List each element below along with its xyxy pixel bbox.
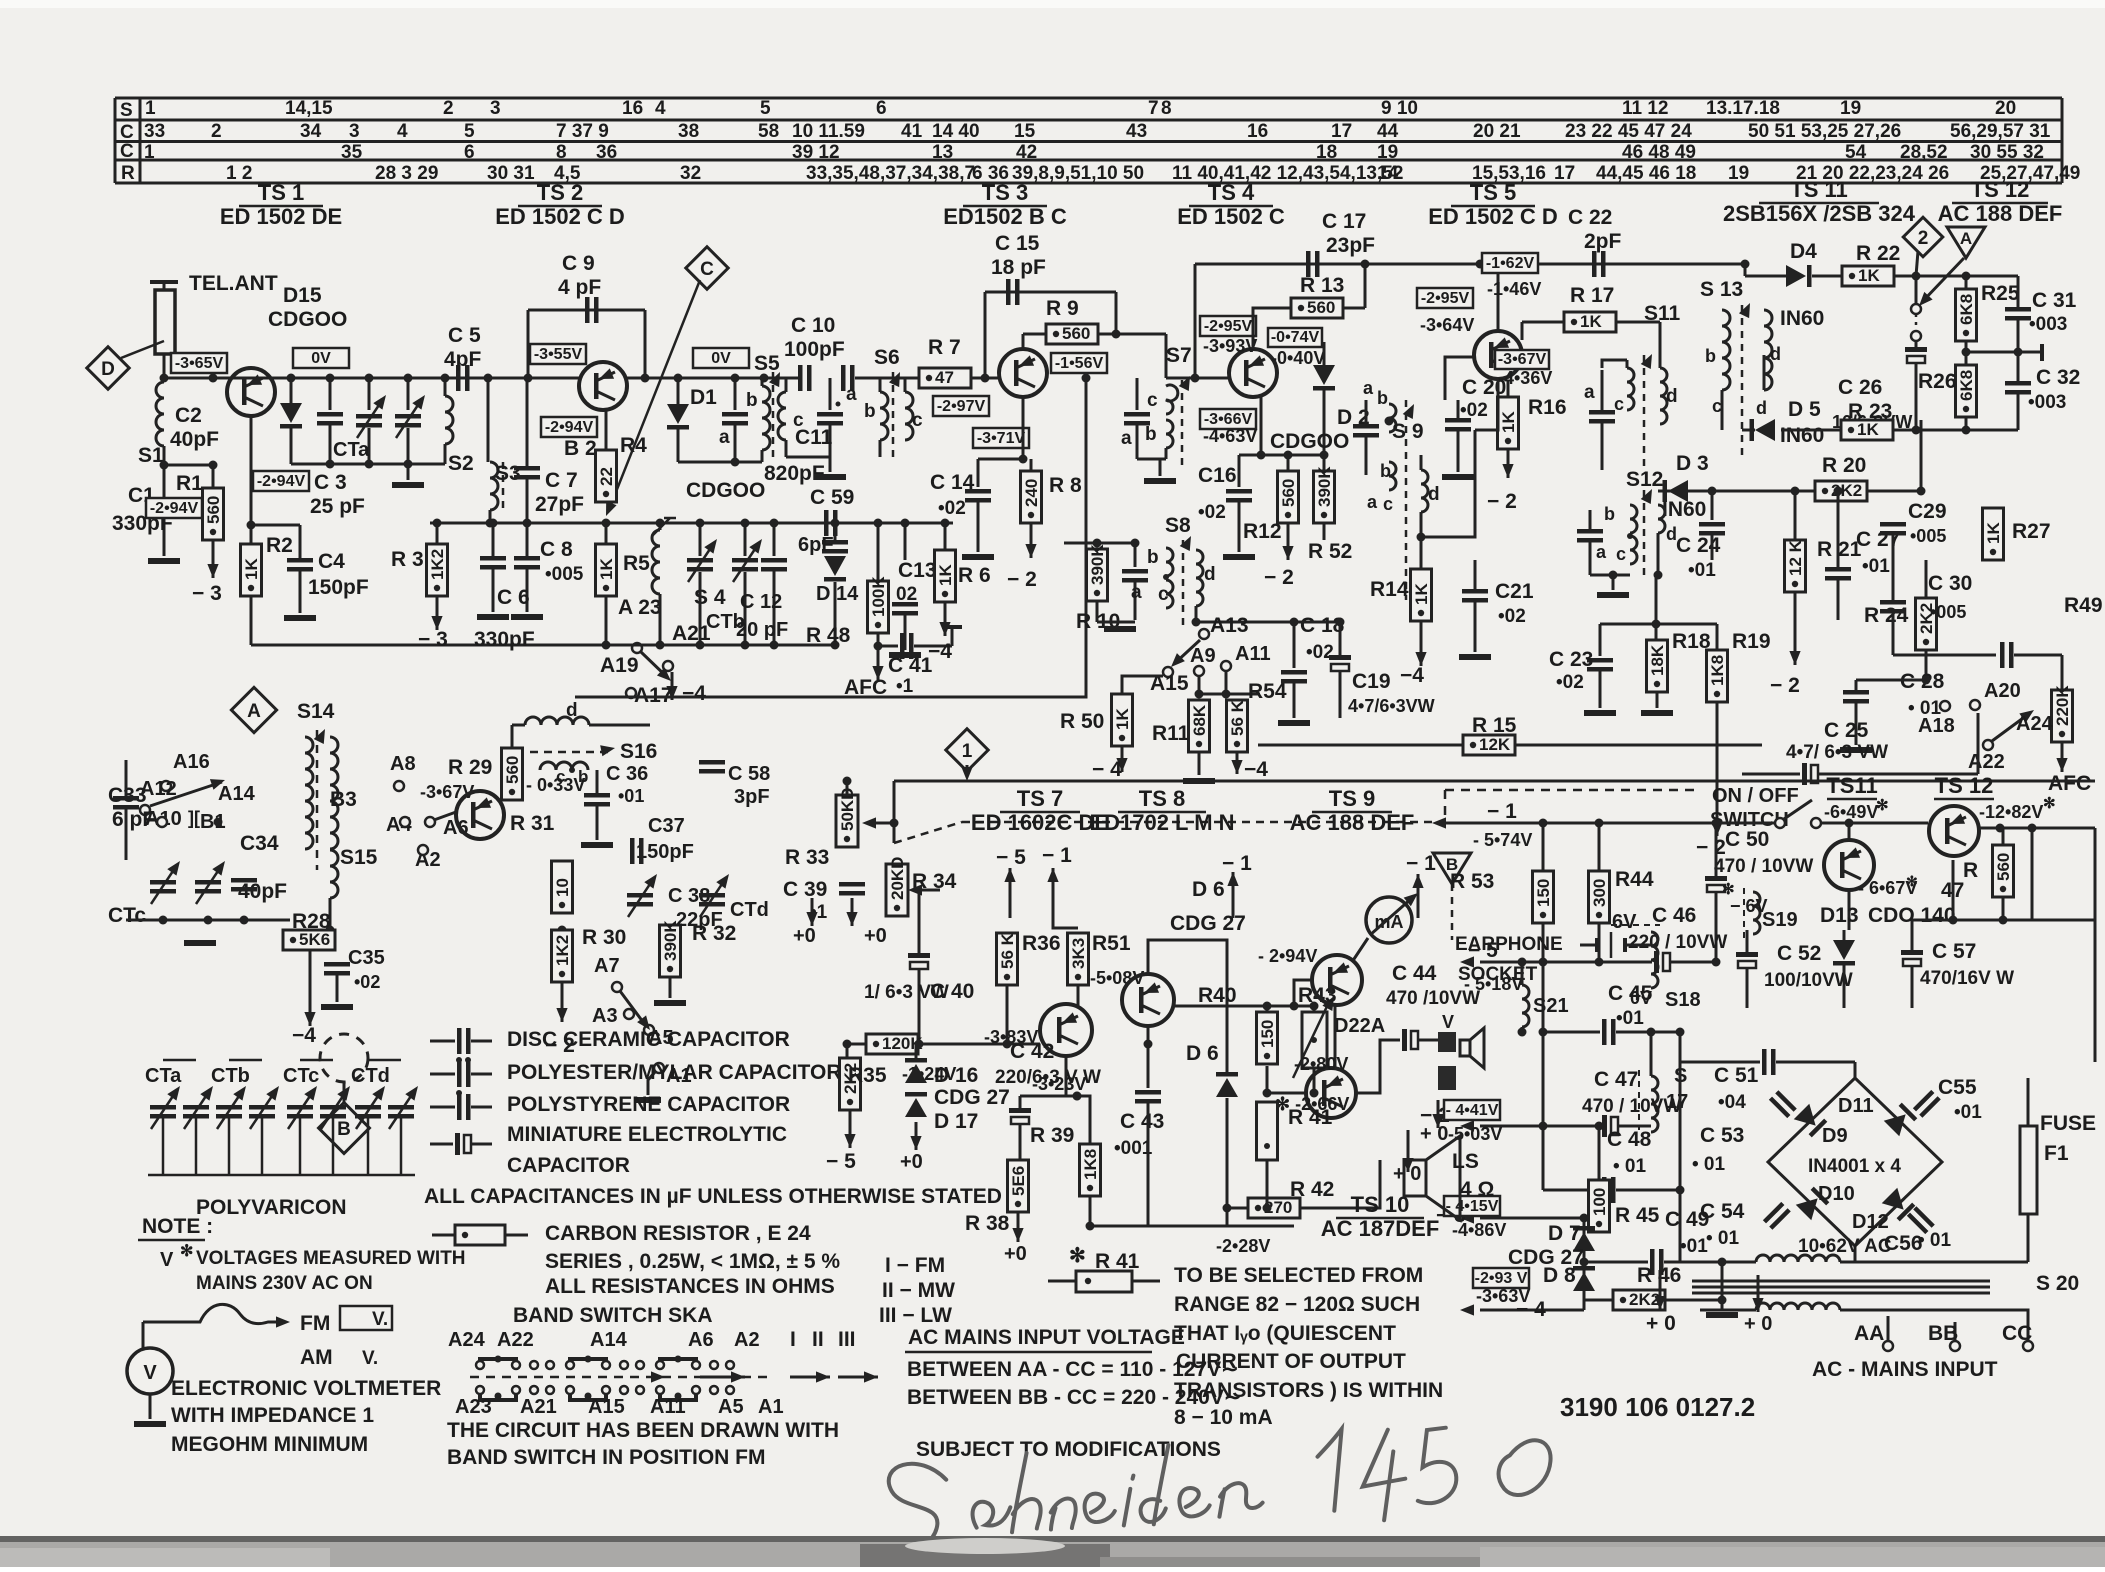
svg-text:10 11.59: 10 11.59 bbox=[792, 121, 865, 142]
svg-text:• 01: • 01 bbox=[1613, 1156, 1646, 1177]
resistor R2 1K bbox=[241, 544, 262, 596]
svg-text:− 5: − 5 bbox=[826, 1150, 856, 1173]
svg-text:D: D bbox=[101, 359, 115, 380]
svg-text:][: ][ bbox=[188, 808, 200, 828]
svg-text:1K8: 1K8 bbox=[1708, 655, 1727, 686]
svg-text:a: a bbox=[719, 427, 730, 448]
svg-text:− 3: − 3 bbox=[418, 628, 448, 651]
svg-text:C 12: C 12 bbox=[740, 591, 782, 613]
varicap CTd2 bbox=[699, 893, 725, 898]
svg-text:− 1: − 1 bbox=[1222, 852, 1252, 875]
svg-text:B 2: B 2 bbox=[564, 437, 597, 460]
svg-text:15: 15 bbox=[1014, 121, 1036, 142]
antenna triangle A bbox=[1947, 227, 1985, 258]
svg-text:C 3: C 3 bbox=[314, 471, 347, 494]
wire TS8 collector bbox=[1147, 940, 1149, 974]
wire TS7 collector to R51 bbox=[1077, 985, 1080, 1008]
main rail TS1 bbox=[164, 377, 472, 380]
bridge diode D12 bbox=[1882, 1188, 1916, 1222]
diode D2 bbox=[1323, 342, 1326, 365]
svg-text:A15: A15 bbox=[588, 1396, 625, 1418]
S7 tank coil c bbox=[1166, 385, 1178, 414]
svg-text:S16: S16 bbox=[620, 740, 657, 763]
resistor R46 2K2 bbox=[1613, 1290, 1665, 1310]
svg-text:S3: S3 bbox=[495, 462, 521, 485]
svg-text:D 7: D 7 bbox=[1548, 1222, 1581, 1245]
bus A9-A11 bbox=[1199, 693, 1260, 696]
meter arm bbox=[1370, 898, 1412, 935]
varicap CTb small bbox=[699, 523, 702, 556]
arrow from diamond 1 to bus bbox=[966, 765, 969, 770]
ground C21 bbox=[1459, 654, 1491, 660]
svg-text:- 4•41V: - 4•41V bbox=[1446, 1102, 1499, 1119]
svg-text:− 1: − 1 bbox=[1042, 844, 1072, 867]
svg-text:33: 33 bbox=[144, 121, 165, 142]
mid junction R25 R26 bbox=[1962, 348, 1971, 357]
series cap C51 bbox=[1680, 1061, 1760, 1064]
FM V box bbox=[340, 1306, 392, 1330]
arrow into 50KD bbox=[870, 822, 894, 825]
voltage box -2.94V TS2 bbox=[541, 417, 597, 437]
wire switch to TS11 bbox=[1820, 822, 1928, 825]
svg-text:ED 1502 C: ED 1502 C bbox=[1177, 204, 1285, 229]
svg-text:a: a bbox=[1363, 378, 1374, 398]
svg-text:− 6V: − 6V bbox=[1730, 896, 1768, 916]
svg-text:d: d bbox=[1428, 484, 1440, 505]
svg-text:5K6: 5K6 bbox=[299, 930, 330, 949]
svg-text:R 17: R 17 bbox=[1570, 284, 1614, 307]
voltage box 0V TS1 bbox=[293, 348, 349, 368]
svg-text:D 17: D 17 bbox=[934, 1110, 978, 1133]
svg-text:2: 2 bbox=[1918, 228, 1929, 249]
series cap C45 bbox=[1543, 1031, 1600, 1034]
svg-text:4 Ω: 4 Ω bbox=[1460, 1178, 1494, 1201]
contact A22 arm A24 bbox=[1983, 740, 1993, 750]
svg-text:POLYSTYRENE CAPACITOR: POLYSTYRENE CAPACITOR bbox=[507, 1093, 790, 1116]
arrow +0 bottom center bbox=[1659, 1270, 1662, 1310]
svg-text:•02: •02 bbox=[938, 498, 966, 519]
svg-text:C 52: C 52 bbox=[1777, 942, 1821, 965]
ground C4 bbox=[284, 615, 316, 621]
S12 junction mid bbox=[1627, 533, 1633, 539]
svg-text:CTc: CTc bbox=[283, 1065, 319, 1087]
svg-text:b: b bbox=[1705, 346, 1716, 366]
svg-text:28,52: 28,52 bbox=[1900, 142, 1948, 163]
resistor R24 2K2 bbox=[1916, 598, 1937, 650]
series ecap C44 bbox=[1356, 1040, 1400, 1093]
svg-text:-2•97V: -2•97V bbox=[937, 398, 986, 415]
svg-text:-0•74V: -0•74V bbox=[1271, 329, 1320, 346]
svg-text:D 8: D 8 bbox=[1543, 1264, 1576, 1287]
svg-text:− 3: − 3 bbox=[192, 582, 222, 605]
svg-text:4•7/ 6•3 VW: 4•7/ 6•3 VW bbox=[1786, 742, 1888, 763]
wire R22 to node2 bbox=[1894, 275, 1916, 278]
svg-text:16: 16 bbox=[622, 98, 643, 119]
svg-text:S8: S8 bbox=[1165, 514, 1191, 537]
svg-text:C 36: C 36 bbox=[606, 763, 648, 785]
svg-text:BAND SWITCH IN POSITIO: BAND SWITCH IN POSITION FM bbox=[447, 1446, 766, 1469]
ground R52 bbox=[1323, 523, 1326, 540]
varicap CTa bbox=[368, 378, 371, 410]
tank bus TS1 bbox=[291, 463, 445, 466]
voltage box -0.74V bbox=[1268, 328, 1322, 347]
supply arrow -2 under R30 bbox=[561, 982, 564, 1022]
capacitor C10 series 2 bbox=[841, 365, 846, 391]
svg-text:A21: A21 bbox=[520, 1396, 557, 1418]
svg-text:A: A bbox=[247, 701, 261, 722]
wire S21 bottom bbox=[1521, 1027, 1524, 1032]
coil S18 bbox=[1651, 932, 1658, 988]
wire TS9 emitter to TS10 bbox=[1334, 1005, 1337, 1068]
svg-text:C 23: C 23 bbox=[1549, 648, 1593, 671]
capacitor C30 .005 bbox=[1880, 600, 1906, 605]
svg-text:b: b bbox=[864, 401, 876, 422]
svg-text:I − FM: I − FM bbox=[885, 1254, 945, 1277]
series ecap C25 in bus bbox=[1742, 773, 1800, 776]
emitter TS1 wire bbox=[250, 414, 253, 544]
arm from A to contact bbox=[1922, 258, 1964, 302]
diode D15 bbox=[290, 378, 293, 403]
svg-text:C37: C37 bbox=[648, 815, 685, 837]
polyvaricon frame lines bbox=[162, 1118, 165, 1175]
svg-text:3pF: 3pF bbox=[734, 786, 770, 808]
svg-text:3190 106 0127.2: 3190 106 0127.2 bbox=[1560, 1392, 1755, 1422]
diode D14 varactor bbox=[824, 556, 846, 576]
svg-text:42: 42 bbox=[1016, 142, 1037, 163]
svg-text:10•62V AC: 10•62V AC bbox=[1798, 1236, 1892, 1257]
arrow +0 under R39 bbox=[1017, 1212, 1020, 1242]
arm A6 to TS6 base bbox=[434, 812, 456, 820]
S13 transformer right coil bbox=[1764, 310, 1772, 390]
ground C18 bbox=[1278, 720, 1310, 726]
supply arrow -4 under R50 bbox=[1121, 746, 1124, 772]
speaker small bbox=[1470, 1028, 1484, 1068]
svg-text:AC 188 DEF: AC 188 DEF bbox=[1290, 810, 1415, 835]
svg-text:4: 4 bbox=[655, 98, 666, 119]
svg-text:1K2: 1K2 bbox=[553, 935, 572, 966]
bottom bus TS1-TS2 bbox=[251, 644, 606, 647]
diode D4 bbox=[1786, 265, 1806, 287]
svg-text:D 3: D 3 bbox=[1676, 452, 1709, 475]
svg-text:S 20: S 20 bbox=[2036, 1272, 2079, 1295]
capacitor C43 bbox=[1147, 1026, 1150, 1088]
svg-text:POLYESTER/MYLAR CAPACITOR: POLYESTER/MYLAR CAPACITOR bbox=[507, 1061, 841, 1084]
svg-text:50 51 53,25 27,26: 50 51 53,25 27,26 bbox=[1748, 121, 1901, 142]
wire 1K8 bottom bbox=[1089, 1196, 1092, 1226]
diode D3 bbox=[1668, 480, 1688, 502]
meter mA bbox=[1366, 897, 1412, 943]
svg-text:•02: •02 bbox=[1556, 672, 1584, 693]
svg-text:TO BE SELECTED FROM: TO BE SELECTED FROM bbox=[1174, 1264, 1423, 1287]
svg-text:IN60: IN60 bbox=[1780, 424, 1824, 447]
ground C23 bbox=[1584, 710, 1616, 716]
svg-text:-12•82V: -12•82V bbox=[1979, 802, 2043, 822]
svg-text:3K3: 3K3 bbox=[1069, 938, 1088, 969]
svg-text:C 51: C 51 bbox=[1714, 1064, 1759, 1087]
mains terminals AA BB CC bbox=[1700, 1310, 1888, 1332]
wire TS12 collector bbox=[1979, 827, 2095, 830]
svg-text:560: 560 bbox=[1307, 298, 1335, 317]
band switch top row contacts bbox=[480, 1359, 516, 1369]
resistor R39 5E6 bbox=[1008, 1160, 1029, 1212]
svg-text:•005: •005 bbox=[545, 564, 584, 585]
S14 transformer primary bbox=[305, 737, 313, 849]
svg-text:CTb: CTb bbox=[211, 1065, 250, 1087]
S13 dashed core bbox=[1741, 305, 1744, 460]
legend carbon resistor symbol bbox=[432, 1234, 455, 1237]
S11 dashed switch bbox=[1643, 355, 1646, 470]
coil S3 dashed bbox=[487, 378, 490, 462]
dashed box outline right bbox=[1445, 789, 1700, 792]
svg-text:R2: R2 bbox=[266, 534, 293, 557]
transformer S20 core bbox=[1692, 1280, 1990, 1283]
resistor R26 6K8 bbox=[1956, 365, 1977, 417]
S8 tank coil c bbox=[1166, 580, 1173, 608]
supply arrow -4 under R6 bbox=[944, 602, 947, 636]
svg-text:150: 150 bbox=[1534, 879, 1553, 907]
svg-text:6pF: 6pF bbox=[798, 534, 834, 556]
svg-text:20 21: 20 21 bbox=[1473, 121, 1521, 142]
resistor R5 1K bbox=[605, 523, 608, 544]
middle tank cap polystyrene bbox=[829, 378, 832, 410]
svg-text:C 25: C 25 bbox=[1824, 719, 1869, 742]
svg-text:A2: A2 bbox=[734, 1329, 760, 1351]
svg-text:CURRENT OF OUTPUT: CURRENT OF OUTPUT bbox=[1176, 1350, 1406, 1373]
resistor R49 220K bbox=[2052, 690, 2073, 742]
capacitor C59 series in bus bbox=[824, 510, 829, 536]
svg-text:1K: 1K bbox=[597, 558, 616, 580]
svg-text:300: 300 bbox=[1590, 879, 1609, 907]
dashed battery link bbox=[1611, 924, 1660, 926]
svg-text:R51: R51 bbox=[1092, 932, 1131, 955]
svg-text:4: 4 bbox=[397, 121, 408, 142]
junction S1 bottom bbox=[163, 446, 166, 465]
resistor R8 240 bbox=[1021, 471, 1042, 523]
svg-text:d: d bbox=[1770, 344, 1781, 364]
svg-text:C 17: C 17 bbox=[1322, 210, 1366, 233]
voltage box -4.41V bbox=[1444, 1100, 1500, 1120]
svg-text:A1: A1 bbox=[758, 1396, 784, 1418]
svg-text:C 59: C 59 bbox=[810, 486, 854, 509]
wire coil d down bbox=[1657, 533, 1660, 575]
svg-text:D 6: D 6 bbox=[1186, 1042, 1219, 1065]
dashed circle B bbox=[320, 1034, 368, 1082]
svg-text:d: d bbox=[566, 700, 578, 721]
svg-text:A24: A24 bbox=[448, 1329, 486, 1351]
svg-text:R 8: R 8 bbox=[1049, 474, 1082, 497]
voltage box -2.93V bbox=[1473, 1268, 1529, 1288]
svg-text:18 pF: 18 pF bbox=[991, 256, 1046, 279]
svg-text:R26: R26 bbox=[1918, 370, 1957, 393]
svg-text:•003: •003 bbox=[2028, 392, 2066, 413]
capacitor C22 2pF bbox=[1592, 251, 1597, 277]
svg-text:C21: C21 bbox=[1495, 580, 1534, 603]
svg-text:•01: •01 bbox=[1688, 560, 1716, 581]
svg-text:27pF: 27pF bbox=[535, 493, 584, 516]
switch contact A21 bbox=[663, 661, 673, 671]
svg-text:330pF: 330pF bbox=[474, 628, 535, 651]
svg-text:✻: ✻ bbox=[180, 1243, 193, 1260]
svg-text:b: b bbox=[1147, 547, 1159, 568]
diode D5 bbox=[1742, 429, 1755, 432]
dashed link to TS7 stage bbox=[894, 822, 962, 843]
capacitor C4 150pF bbox=[251, 524, 300, 527]
svg-text:C 32: C 32 bbox=[2036, 366, 2080, 389]
wire R40 R43 bottom bbox=[1267, 1092, 1306, 1095]
svg-text:AC MAINS INPUT VOLTAGE: AC MAINS INPUT VOLTAGE bbox=[908, 1326, 1185, 1349]
voltage box 0V TS2 bbox=[693, 348, 749, 368]
svg-text:LS: LS bbox=[1452, 1150, 1479, 1173]
voltage box -3.71V bbox=[973, 428, 1029, 448]
svg-text:1K8: 1K8 bbox=[1081, 1149, 1100, 1180]
dashed S17 bbox=[1638, 1070, 1640, 1130]
svg-text:C 46: C 46 bbox=[1652, 904, 1696, 927]
junction D3 out bbox=[1708, 487, 1717, 496]
handwritten Schneider 1450 bbox=[861, 1415, 1554, 1558]
resistor R3 1K2 bbox=[427, 544, 448, 596]
bus above S8 tank bbox=[1064, 542, 1135, 545]
svg-text:ED 1502 C D: ED 1502 C D bbox=[1428, 204, 1558, 229]
middle tank coil c bbox=[778, 392, 786, 440]
svg-text:-6•49V: -6•49V bbox=[1824, 802, 1878, 822]
arrow -4 row bbox=[1460, 1304, 1474, 1315]
S12 coil left lower bbox=[1630, 536, 1637, 564]
svg-text:−4: −4 bbox=[1400, 664, 1424, 687]
svg-text:C35: C35 bbox=[348, 947, 385, 969]
svg-text:1K: 1K bbox=[1113, 708, 1132, 730]
svg-text:TS 12: TS 12 bbox=[1935, 773, 1994, 798]
svg-text:b: b bbox=[1380, 461, 1391, 481]
wire R20 up link bbox=[1920, 420, 1923, 491]
svg-text:V: V bbox=[160, 1249, 174, 1271]
svg-text:ALL CAPACITANCES IN µF UNL: ALL CAPACITANCES IN µF UNLESS OTHERWISE … bbox=[424, 1185, 1002, 1208]
svg-text:CTa: CTa bbox=[145, 1065, 182, 1087]
svg-text:✻: ✻ bbox=[1876, 797, 1889, 814]
arrow +0 right of R46 bbox=[1757, 1275, 1760, 1312]
arrow -2 row bbox=[1460, 1120, 1474, 1131]
wire A5 right bbox=[653, 1029, 680, 1031]
transistor TS1 bbox=[227, 368, 275, 416]
svg-text:A23: A23 bbox=[455, 1396, 492, 1418]
resistor R32 390K bbox=[660, 925, 681, 977]
supply arrow -2 under R19 bbox=[1716, 702, 1719, 836]
svg-text:0V: 0V bbox=[711, 350, 731, 367]
svg-text:470/16V W: 470/16V W bbox=[1920, 968, 2014, 989]
node D diamond bbox=[87, 347, 129, 389]
ground C13 bbox=[889, 652, 921, 658]
svg-text:AFC: AFC bbox=[2048, 772, 2091, 795]
svg-text:A16: A16 bbox=[173, 751, 210, 773]
roman arrows bbox=[790, 1376, 830, 1379]
svg-text:560: 560 bbox=[1994, 853, 2013, 881]
svg-text:C19: C19 bbox=[1352, 670, 1391, 693]
svg-text:VOLTAGES MEASURED WITH: VOLTAGES MEASURED WITH bbox=[196, 1248, 466, 1269]
svg-text:II: II bbox=[812, 1328, 824, 1351]
svg-text:A22: A22 bbox=[497, 1329, 534, 1351]
svg-text:A18: A18 bbox=[1918, 715, 1955, 737]
svg-text:V: V bbox=[143, 1362, 157, 1384]
svg-text:-4•63V: -4•63V bbox=[1203, 426, 1257, 446]
svg-text:-1•46V: -1•46V bbox=[1487, 279, 1541, 299]
resistor R19 1K8 bbox=[1716, 624, 1719, 650]
svg-text:CDGOO: CDGOO bbox=[1270, 430, 1349, 453]
S12 tank cap bbox=[1589, 491, 1591, 527]
electronic voltmeter circle bbox=[127, 1348, 173, 1394]
svg-text:CTa: CTa bbox=[333, 439, 370, 461]
svg-text:RANGE 82 − 120Ω SUCH: RANGE 82 − 120Ω SUCH bbox=[1174, 1293, 1420, 1316]
transistor TS12 bbox=[1929, 806, 1979, 856]
wire R36 bottom to base bbox=[1006, 985, 1009, 1044]
svg-text:36: 36 bbox=[596, 142, 617, 163]
svg-text:R44: R44 bbox=[1615, 868, 1654, 891]
svg-text:ED 1602C DE: ED 1602C DE bbox=[971, 810, 1109, 835]
wire C25 bus corner up bbox=[1977, 713, 1980, 774]
S9 coil left bbox=[1389, 404, 1396, 432]
varicap CTb big bbox=[744, 523, 747, 556]
svg-text:100: 100 bbox=[1590, 1188, 1609, 1216]
wire R24 bottom bbox=[1925, 650, 1928, 680]
resistor R9 560 box bbox=[1046, 324, 1098, 344]
switch S8 dashed bbox=[1182, 540, 1185, 625]
tank S4 bottom bus bbox=[606, 644, 835, 647]
junction C22 wire bbox=[1476, 260, 1485, 269]
svg-text:100/10VW: 100/10VW bbox=[1764, 970, 1853, 991]
svg-text:MAINS 230V AC ON: MAINS 230V AC ON bbox=[196, 1273, 373, 1294]
svg-text:14: 14 bbox=[1377, 163, 1399, 184]
svg-text:2: 2 bbox=[211, 121, 222, 142]
svg-text:A: A bbox=[1960, 229, 1972, 248]
capacitor C32 .003 bbox=[2005, 381, 2031, 386]
svg-text:C 58: C 58 bbox=[728, 763, 770, 785]
capacitor C5 4pF series bbox=[456, 365, 461, 391]
wire bridge bottom bbox=[1854, 1246, 1857, 1262]
svg-text:IN60: IN60 bbox=[1780, 307, 1824, 330]
svg-text:560: 560 bbox=[204, 496, 223, 524]
svg-text:1K: 1K bbox=[1857, 420, 1879, 439]
arrow AFC down bbox=[877, 648, 880, 680]
resistor R42 270 bbox=[1248, 1198, 1300, 1218]
svg-text:R27: R27 bbox=[2012, 520, 2051, 543]
svg-text:1: 1 bbox=[145, 98, 156, 119]
svg-text:C55: C55 bbox=[1938, 1076, 1977, 1099]
coil S2 bbox=[444, 378, 447, 396]
svg-text:•02: •02 bbox=[1498, 606, 1526, 627]
ground C28 bbox=[1840, 747, 1872, 753]
svg-text:A11: A11 bbox=[650, 1396, 686, 1418]
wire A15 to R50 bbox=[1120, 675, 1164, 677]
resistor R14 1K bbox=[1420, 537, 1423, 569]
transistor TS11 bbox=[1824, 840, 1874, 890]
svg-text:-3•64V: -3•64V bbox=[1420, 315, 1474, 335]
node diamond B bbox=[343, 1082, 346, 1108]
supply arrow -2 under R21 bbox=[1794, 592, 1797, 665]
svg-text:11 12: 11 12 bbox=[1622, 98, 1669, 119]
potentiometer 20KD bbox=[886, 864, 908, 916]
S7 tank capacitor a bbox=[1136, 378, 1139, 410]
on/off switch contacts bbox=[1775, 818, 1785, 828]
svg-text:a: a bbox=[1584, 382, 1595, 403]
svg-text:− 4: − 4 bbox=[1092, 758, 1122, 781]
pointer line from C to R4 junction bbox=[608, 280, 700, 512]
svg-text:R 7: R 7 bbox=[928, 336, 961, 359]
svg-text:-2•95V: -2•95V bbox=[1421, 290, 1470, 307]
svg-text:•01: •01 bbox=[1680, 1236, 1708, 1257]
svg-text:A 23: A 23 bbox=[618, 596, 662, 619]
svg-text:TS 12: TS 12 bbox=[1971, 177, 2030, 202]
capacitor C26 electrolytic bbox=[1915, 341, 1918, 347]
wire R7 to TS3 bbox=[971, 377, 999, 380]
S11 tank cap bbox=[1601, 360, 1603, 408]
